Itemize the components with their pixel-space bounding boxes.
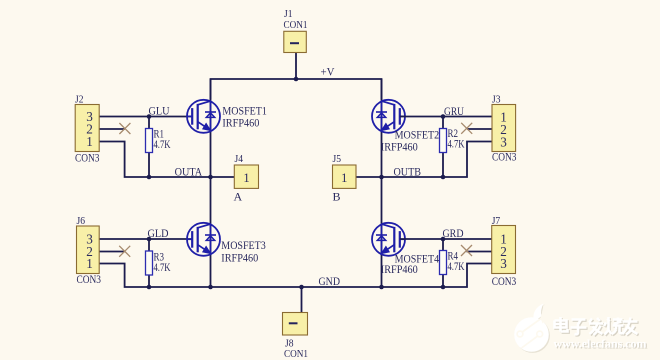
resistor R4 (442, 239, 444, 251)
junction left column / OUTA (208, 175, 213, 180)
svg-text:1: 1 (86, 134, 93, 149)
svg-text:www.elecfans.com: www.elecfans.com (554, 337, 647, 351)
junction R2 bottom / OUTB (441, 175, 446, 180)
watermark text 电子发烧友 (556, 318, 639, 336)
no-connect X on J7 pin 2 (461, 245, 472, 256)
svg-text:J4: J4 (235, 153, 244, 165)
svg-text:J5: J5 (333, 153, 342, 165)
connector J7 (492, 226, 516, 274)
wire +V rail (211, 79, 382, 100)
svg-text:IRFP460: IRFP460 (221, 251, 258, 265)
transistor MOSFET3 (187, 223, 220, 256)
svg-text:CON3: CON3 (492, 274, 517, 288)
wire J6 pin1 to GND rail (99, 264, 492, 288)
svg-text:4.7K: 4.7K (154, 137, 171, 151)
junction at J8 / GND rail (299, 285, 304, 290)
resistor R2 (442, 117, 444, 129)
wire GLD (99, 238, 192, 240)
svg-text:3: 3 (500, 134, 507, 149)
svg-text:GLD: GLD (148, 226, 169, 240)
svg-text:1: 1 (341, 171, 347, 185)
wire J2 pin1 to OUTA (99, 142, 235, 178)
svg-text:IRFP460: IRFP460 (381, 262, 418, 276)
wire J8 drop (301, 287, 303, 313)
svg-text:4.7K: 4.7K (448, 137, 465, 151)
wire J1 drop (295, 53, 297, 80)
wire GRU (400, 116, 492, 118)
wire OUTB to J3 pin3 (356, 142, 492, 178)
svg-text:CON1: CON1 (284, 19, 308, 31)
junction left column GND (208, 285, 213, 290)
junction R4 bottom / GND (441, 285, 446, 290)
connector J4 (234, 165, 258, 188)
svg-text:GND: GND (319, 274, 341, 288)
svg-text:A: A (234, 190, 243, 204)
junction R4 top (441, 237, 446, 242)
transistor MOSFET4 (372, 223, 405, 256)
transistor MOSFET1 (187, 100, 220, 133)
svg-text:1: 1 (86, 256, 93, 271)
svg-text:CON1: CON1 (284, 348, 308, 360)
svg-text:CON3: CON3 (77, 272, 102, 286)
junction at J1 / +V rail (294, 77, 299, 82)
connector J8 (283, 313, 308, 336)
junction R2 top (441, 114, 446, 119)
svg-text:GRD: GRD (443, 226, 464, 240)
svg-text:OUTB: OUTB (394, 165, 422, 179)
wire J6 pin2 stub (99, 251, 125, 253)
svg-text:1: 1 (243, 171, 249, 185)
wire GLU (99, 116, 192, 118)
svg-text:J6: J6 (77, 215, 86, 227)
svg-text:J3: J3 (492, 94, 501, 106)
junction right column / OUTB (379, 175, 384, 180)
junction right column GND (379, 285, 384, 290)
connector J1 (284, 31, 307, 52)
svg-text:J2: J2 (75, 94, 84, 106)
svg-text:IRFP460: IRFP460 (222, 115, 259, 129)
svg-text:4.7K: 4.7K (448, 259, 465, 273)
no-connect X on J2 pin 2 (119, 123, 130, 134)
svg-text:GLU: GLU (149, 104, 170, 118)
junction R1 bottom / OUTA (147, 175, 152, 180)
wire left column (210, 79, 212, 287)
svg-text:IRFP460: IRFP460 (381, 139, 418, 153)
connector J6 (77, 226, 100, 274)
svg-text:J7: J7 (492, 215, 501, 227)
svg-text:CON3: CON3 (492, 150, 517, 164)
svg-text:GRU: GRU (444, 104, 464, 118)
wire right column (381, 79, 383, 287)
junction R3 bottom / GND (147, 285, 152, 290)
connector J3 (492, 105, 516, 152)
wire GRD (400, 238, 492, 240)
no-connect X on J3 pin 2 (461, 123, 472, 134)
wire J3 pin2 stub (467, 128, 492, 130)
watermark logo (514, 304, 550, 353)
transistor MOSFET2 (372, 100, 405, 133)
resistor R1 (148, 117, 150, 129)
svg-text:OUTA: OUTA (175, 165, 203, 179)
resistor R3 (148, 239, 150, 251)
svg-text:+V: +V (321, 65, 335, 79)
wire J2 pin2 stub (99, 128, 125, 130)
connector J5 (333, 165, 357, 188)
junction R3 top (147, 237, 152, 242)
junction R1 top (147, 114, 152, 119)
svg-text:CON3: CON3 (75, 151, 100, 165)
connector J2 (75, 105, 99, 152)
svg-text:4.7K: 4.7K (154, 260, 171, 274)
svg-text:3: 3 (500, 256, 507, 271)
svg-text:B: B (333, 190, 341, 204)
wire J7 pin2 stub (467, 251, 492, 253)
no-connect X on J6 pin 2 (119, 246, 130, 257)
